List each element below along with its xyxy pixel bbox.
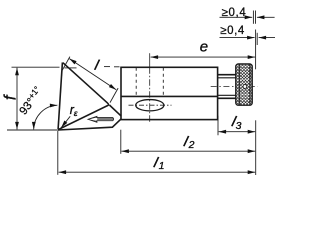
svg-text:l: l	[93, 57, 101, 74]
svg-text:≥0,4: ≥0,4	[222, 7, 247, 19]
svg-text:ε: ε	[74, 108, 78, 118]
svg-text:3: 3	[236, 120, 242, 132]
svg-text:2: 2	[188, 139, 195, 151]
svg-text:≥0,4: ≥0,4	[220, 25, 245, 37]
svg-text:e: e	[200, 39, 208, 56]
svg-text:1: 1	[159, 160, 165, 172]
